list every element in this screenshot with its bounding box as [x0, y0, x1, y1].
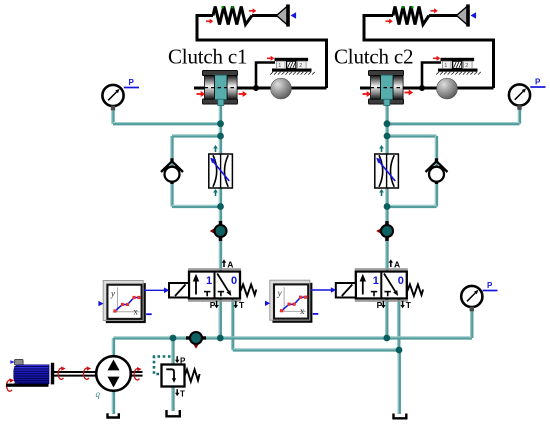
blue tap with P label at gauge P1	[124, 78, 139, 87]
electric motor	[6, 359, 54, 386]
junction node J1	[217, 120, 224, 127]
flow arrow below orifice OR2	[379, 189, 384, 196]
signal table block T2	[265, 280, 318, 323]
wire: valve DV2 P riser	[386, 298, 387, 338]
svg-text:1: 1	[206, 275, 212, 287]
flow arrow above orifice OR1	[213, 145, 218, 152]
wire: gauge1 drop and run to node A1	[112, 106, 221, 124]
junction node J3	[217, 203, 224, 210]
wire: spring S2 to fixed support	[429, 14, 457, 17]
port labels A P T of DV1	[210, 259, 245, 309]
tank under pump	[108, 413, 119, 417]
tank at T return	[394, 414, 407, 419]
blue tap with P label at gauge P2	[530, 78, 545, 87]
svg-text:A: A	[394, 259, 400, 269]
directional valve DV1 body	[188, 269, 241, 301]
junction node J10	[396, 347, 403, 354]
wire: P supply main line	[114, 337, 473, 338]
variable orifice OR2	[375, 154, 399, 188]
svg-text:x: x	[133, 306, 138, 316]
spring S1	[213, 7, 252, 25]
mass sphere m1	[271, 78, 292, 99]
wire: check valve CV2 bypass vertical	[435, 136, 436, 207]
fixed support (force anchor) of S2	[457, 4, 477, 26]
rotation arrow at pump right	[134, 367, 142, 380]
wire: check valve CV2 bypass branch top	[387, 135, 437, 136]
wire: clutch c2 top loop	[363, 40, 494, 88]
wire: clutch c1 supply line A (vertical main)	[219, 103, 220, 272]
wire: spring S1 left elbow	[197, 16, 213, 41]
wire: check valve CV2 bypass return	[387, 205, 437, 206]
svg-text:1: 1	[278, 63, 281, 69]
fixed support (force anchor) of S1	[277, 4, 297, 26]
wire: valve DV1 T riser	[232, 298, 233, 350]
node: rod junction c1	[253, 85, 259, 91]
svg-text:P: P	[487, 281, 493, 290]
hydraulic pump	[96, 356, 131, 391]
svg-text:A: A	[227, 259, 233, 269]
pilot dashed line of relief valve	[154, 357, 171, 375]
red arrow at stop element 1	[267, 56, 274, 61]
shaft pump right stub	[131, 372, 143, 376]
node: rod junction c2	[419, 85, 425, 91]
wire: spring S2 left elbow	[364, 16, 393, 41]
junction node J6	[384, 203, 391, 210]
solenoid of DV1	[169, 283, 189, 298]
variable orifice OR1	[209, 154, 233, 188]
signal table block T1	[98, 281, 151, 324]
red arrow at spring S1 left	[206, 19, 213, 24]
pressure gauge P1	[102, 85, 123, 110]
red arrow clutch c1 left	[197, 91, 206, 97]
red arrow at spring S1 right	[249, 8, 256, 13]
label Clutch c1	[168, 45, 247, 69]
junction node J7	[170, 335, 177, 342]
wire: relief valve T drop	[172, 386, 173, 411]
svg-text:Clutch c2: Clutch c2	[334, 45, 413, 69]
svg-text:1: 1	[373, 275, 379, 287]
rotation arrow at pump left	[84, 366, 92, 379]
svg-text:2: 2	[299, 63, 302, 69]
flow arrow above orifice OR2	[379, 145, 384, 152]
wire: branch to stop element 2	[422, 63, 441, 89]
wire: pump pressure riser	[112, 338, 113, 357]
svg-text:P: P	[180, 357, 186, 366]
wire: pump suction drop to tank	[112, 390, 113, 414]
tank under relief valve	[167, 410, 180, 416]
volume node V2 on line A2	[376, 221, 393, 241]
red arrow at stop element 2	[433, 56, 440, 61]
relief valve T label	[175, 389, 185, 398]
wire: gauge3 riser	[471, 309, 472, 338]
svg-text:x: x	[300, 306, 305, 316]
wire: branch to stop element 1	[256, 63, 275, 89]
return spring of DV1	[241, 284, 257, 296]
red arrow clutch c1 right	[239, 91, 248, 97]
green mark on spring S1	[222, 6, 234, 8]
wire: T return drop to tank	[398, 350, 399, 414]
svg-text:P: P	[210, 300, 216, 310]
wire: clutch c1 top loop	[196, 40, 327, 88]
volume node V1 on line A1	[210, 221, 227, 241]
junction node J9	[383, 335, 390, 342]
wire: valve DV1 P riser	[219, 298, 220, 338]
check valve CV1	[161, 158, 183, 184]
check valve CV2	[426, 158, 448, 184]
blue tap with P label at gauge P3	[483, 281, 498, 290]
mass sphere m2	[437, 78, 458, 99]
stop element (end stop with friction) of c2	[436, 58, 481, 75]
junction node J4	[384, 120, 391, 127]
return spring of DV2	[407, 284, 423, 296]
svg-text:1: 1	[444, 63, 447, 69]
svg-text:Clutch c1: Clutch c1	[168, 45, 247, 69]
svg-text:T: T	[239, 300, 245, 310]
svg-text:T: T	[406, 300, 412, 310]
svg-text:P: P	[129, 78, 135, 87]
red arrow at spring S2 left	[386, 19, 393, 24]
red arrow clutch c2 left	[363, 91, 372, 97]
pressure gauge P3	[461, 286, 482, 311]
wire: clutch c1 piston rod	[237, 87, 327, 90]
green mark on spring S2	[402, 6, 414, 8]
pump q label	[96, 389, 101, 399]
clutch cylinder c1	[203, 70, 238, 105]
svg-text:T: T	[180, 390, 185, 399]
wire: clutch c2 piston rod	[403, 87, 494, 90]
junction node J8	[217, 335, 224, 342]
relief valve P label	[175, 356, 186, 365]
pressure gauge P2	[509, 84, 530, 109]
wire: clutch c2 supply line A (vertical main)	[386, 103, 387, 272]
wire: spring S1 to fixed support	[252, 14, 277, 17]
wire: relief valve P riser	[172, 338, 173, 365]
svg-text:0: 0	[231, 275, 237, 287]
pressure relief valve	[162, 365, 200, 387]
stop element (end stop with friction) of c1	[270, 58, 315, 75]
red arrow at spring S2 right	[431, 8, 438, 13]
signal wire T1 to DV1 solenoid	[144, 288, 170, 294]
solenoid of DV2	[336, 283, 356, 298]
wire: check valve CV1 bypass return	[172, 205, 221, 206]
svg-text:q: q	[96, 389, 101, 399]
junction node J5	[384, 133, 391, 140]
svg-text:P: P	[377, 300, 383, 310]
clutch cylinder c2	[369, 70, 404, 105]
rotation arrow at motor base	[7, 378, 15, 391]
flow arrow below orifice OR1	[213, 189, 218, 196]
wire: gauge2 drop and run to node A2	[387, 106, 520, 124]
wire: clutch c1 left flange stub	[194, 87, 206, 90]
shaft motor-to-pump	[54, 372, 97, 376]
svg-text:P: P	[535, 78, 541, 87]
port labels A P T of DV2	[377, 259, 412, 309]
wire: clutch c2 left flange stub	[360, 87, 372, 90]
red arrow clutch c2 right	[405, 90, 414, 96]
svg-text:2: 2	[465, 63, 468, 69]
wire: valve DV2 T riser	[398, 298, 399, 350]
volume node V3 on P supply	[186, 332, 206, 349]
svg-text:0: 0	[398, 275, 404, 287]
svg-text:y: y	[110, 288, 115, 298]
rotation arrow at motor shaft	[58, 366, 66, 379]
wire: T return line	[233, 349, 400, 350]
directional valve DV2 body	[355, 269, 408, 301]
wire: check valve CV1 bypass branch top	[172, 135, 221, 136]
svg-text:y: y	[277, 288, 282, 298]
wire: check valve CV1 bypass vertical	[171, 136, 172, 207]
label Clutch c2	[334, 45, 413, 69]
spring S2	[393, 7, 429, 25]
signal wire T2 to DV2 solenoid	[310, 287, 336, 293]
junction node J2	[217, 133, 224, 140]
